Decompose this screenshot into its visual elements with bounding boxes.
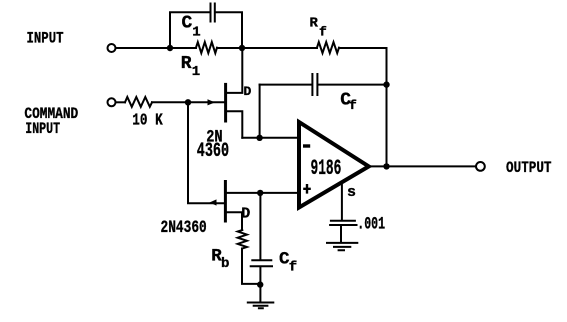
svg-text:.001: .001	[357, 215, 385, 234]
wire input to R1	[116, 47, 197, 49]
wire output	[372, 165, 477, 167]
wire Rf to right rail	[339, 47, 387, 49]
transistor Q1 channel bar	[224, 84, 227, 121]
svg-text:4360: 4360	[197, 141, 229, 163]
junction R1/C1/drain	[239, 45, 245, 51]
ground G1	[327, 243, 357, 250]
svg-text:b: b	[221, 256, 229, 272]
ground G2	[248, 303, 273, 309]
junction input/R1/C1	[167, 45, 173, 51]
wire Cf to inverting node	[259, 85, 261, 138]
Q2 source lead	[225, 192, 260, 194]
wire C3 to ground	[340, 226, 342, 242]
svg-text:OUTPUT: OUTPUT	[506, 160, 552, 178]
svg-text:f: f	[319, 25, 327, 40]
svg-text:D: D	[241, 206, 250, 223]
minus symbol U1	[303, 144, 310, 147]
wire inverting input	[242, 137, 298, 139]
wire R1 to Rf	[217, 47, 317, 49]
op-amp U1	[299, 122, 369, 208]
wire noninverting input	[260, 192, 297, 194]
capacitor Cf	[312, 74, 317, 95]
command input terminal J2	[108, 98, 116, 106]
svg-text:R: R	[181, 54, 192, 74]
svg-text:s: s	[347, 184, 356, 201]
input terminal J1	[108, 44, 116, 52]
U1 strobe pin wire	[341, 184, 343, 220]
svg-text:f: f	[289, 260, 297, 276]
svg-text:INPUT: INPUT	[25, 120, 60, 138]
svg-text:f: f	[349, 98, 357, 113]
output terminal J3	[476, 162, 485, 171]
resistor Rb	[238, 230, 247, 249]
wire 10K to gate	[152, 101, 224, 103]
svg-text:INPUT: INPUT	[27, 30, 64, 48]
wire plus node to Cf2	[259, 193, 261, 259]
junction output node	[383, 163, 389, 169]
resistor 10K	[125, 97, 152, 107]
wire command vertical to Q2 gate	[188, 102, 224, 203]
svg-text:1: 1	[192, 64, 200, 80]
Q1 drain lead	[226, 48, 243, 93]
svg-text:D: D	[244, 84, 252, 99]
resistor R1	[196, 42, 217, 53]
plus symbol U1	[303, 184, 311, 194]
wire right rail vertical	[386, 48, 388, 166]
resistor Rf	[317, 42, 339, 53]
junction noninverting node	[257, 190, 263, 196]
svg-text:9186: 9186	[310, 156, 341, 182]
junction inverting node	[256, 135, 262, 141]
transistor Q2 channel bar	[224, 182, 227, 222]
svg-text:R: R	[310, 16, 319, 32]
Q1 gate arrow	[208, 99, 216, 105]
wire Cf2 to ground	[259, 267, 261, 302]
wire Rb to ground node	[242, 249, 260, 284]
wire C1 loop right	[216, 12, 242, 48]
junction Cf right	[383, 81, 389, 87]
wire Cf feedback left	[260, 84, 312, 86]
svg-text:10 K: 10 K	[132, 111, 162, 130]
capacitor C3 .001	[330, 221, 356, 225]
svg-text:1: 1	[192, 24, 200, 40]
svg-text:C: C	[182, 14, 193, 34]
capacitor C1	[211, 4, 215, 22]
wire Cf feedback right	[319, 84, 387, 86]
Q2 gate arrow	[210, 199, 217, 205]
Q1 source lead	[226, 111, 243, 138]
Q2 drain lead	[225, 212, 242, 230]
wire C1 loop left	[170, 12, 209, 48]
capacitor Cf2	[251, 260, 272, 266]
Q1 gate wire	[116, 101, 126, 103]
junction ground node	[257, 281, 263, 287]
svg-text:2N4360: 2N4360	[161, 217, 207, 238]
junction command node	[185, 99, 191, 105]
